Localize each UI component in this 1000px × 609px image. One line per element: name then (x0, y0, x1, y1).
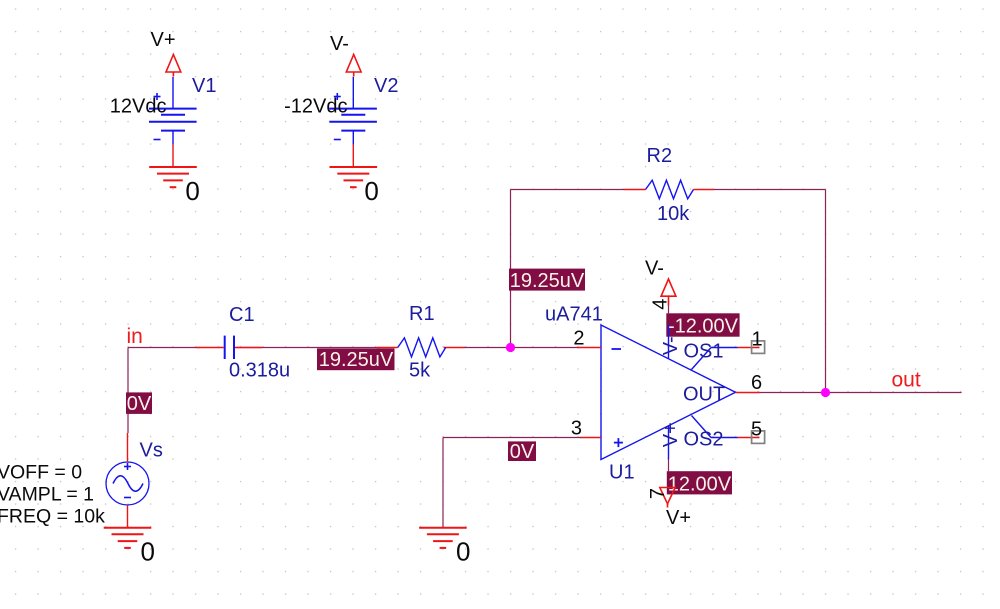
OS2 terminal square pin 5 (752, 431, 765, 444)
svg-text:5: 5 (751, 419, 762, 441)
svg-text:V-: V- (660, 336, 682, 355)
OS1 terminal square pin 1 (752, 341, 765, 354)
OS2 pin line (692, 416, 760, 438)
svg-text:V+: V+ (660, 422, 682, 447)
ground 0 under V1 (149, 144, 197, 187)
wire top horizontal left (511, 189, 626, 191)
bias label 19.25uV (left) (317, 348, 395, 371)
power symbol V+ below op-amp (points down) (660, 488, 675, 508)
svg-text:V-: V- (645, 258, 664, 280)
bias label -12.00V (666, 313, 739, 337)
svg-text:19.25uV: 19.25uV (319, 349, 394, 371)
Vs sine source (106, 462, 149, 505)
wire vertical left feedback (510, 190, 512, 348)
svg-text:0.318u: 0.318u (229, 360, 290, 382)
svg-text:12.00V: 12.00V (668, 474, 732, 496)
svg-text:Vs: Vs (140, 440, 163, 462)
wire pin3 horizontal (443, 437, 581, 439)
capacitor C1 (196, 336, 262, 359)
svg-text:6: 6 (751, 372, 762, 394)
svg-text:-12Vdc: -12Vdc (284, 96, 347, 118)
svg-text:V-: V- (330, 33, 349, 55)
svg-text:OUT: OUT (683, 384, 725, 406)
wire stub pin7 (668, 459, 670, 471)
resistor R2 (624, 180, 713, 199)
svg-text:0: 0 (456, 537, 470, 567)
svg-text:OS1: OS1 (684, 341, 724, 363)
svg-text:V1: V1 (192, 75, 216, 97)
svg-text:0: 0 (364, 176, 378, 206)
svg-text:V2: V2 (374, 75, 398, 97)
ground 0 under Vs (104, 528, 152, 548)
wire top horizontal right (713, 189, 826, 191)
svg-text:C1: C1 (229, 304, 255, 326)
bias label 19.25uV (feedback) (509, 269, 585, 292)
svg-text:U1: U1 (609, 462, 635, 484)
wire junction to pin2 (511, 347, 579, 349)
bias label 0V at input (126, 392, 152, 415)
Vs pins (red) (127, 433, 129, 528)
pin 7 line (V+) (668, 426, 670, 460)
svg-text:0: 0 (185, 176, 199, 206)
svg-text:19.25uV: 19.25uV (510, 270, 585, 292)
svg-text:out: out (892, 369, 921, 392)
svg-text:7: 7 (647, 488, 669, 499)
svg-text:R2: R2 (647, 145, 673, 167)
node junction A (506, 343, 515, 352)
svg-text:OS2: OS2 (684, 429, 724, 451)
svg-text:V+: V+ (666, 507, 691, 529)
ground 0 at pin3 (419, 528, 467, 548)
svg-text:4: 4 (649, 299, 671, 310)
node junction B (821, 388, 830, 397)
svg-text:12Vdc: 12Vdc (110, 96, 167, 118)
svg-text:0V: 0V (510, 441, 535, 463)
svg-text:in: in (127, 325, 143, 348)
bias label 0V at pin3 (508, 441, 536, 463)
op-amp triangle (601, 325, 736, 460)
wire out horizontal (760, 392, 962, 394)
svg-text:1: 1 (752, 329, 763, 351)
minus sign inside (612, 348, 622, 350)
svg-text:-12.00V: -12.00V (668, 316, 739, 338)
power symbol V- (red triangle) (346, 55, 361, 77)
wire stub pin4 (668, 306, 670, 314)
wire in vertical to Vs (127, 348, 129, 434)
svg-text:VAMPL = 1: VAMPL = 1 (0, 484, 94, 506)
pin 6 output (736, 392, 761, 394)
V2 battery symbol (329, 77, 377, 144)
svg-text:0V: 0V (127, 393, 152, 415)
plus sign inside (614, 438, 623, 447)
power symbol V+ (red triangle) (166, 55, 181, 77)
svg-text:2: 2 (573, 328, 584, 350)
power symbol V- above op-amp (661, 279, 676, 306)
svg-text:R1: R1 (409, 303, 435, 325)
svg-text:VOFF = 0: VOFF = 0 (0, 462, 82, 484)
resistor R1 (377, 338, 465, 357)
svg-text:5k: 5k (409, 360, 431, 382)
pin 4 line (V-) (668, 325, 670, 359)
wire C1 right to R1 left (236, 347, 380, 349)
pin 3 (non-inverting) (580, 437, 601, 439)
OS1 pin line (692, 348, 760, 370)
svg-text:V+: V+ (151, 29, 176, 51)
svg-text:0: 0 (141, 537, 155, 567)
svg-text:FREQ = 10k: FREQ = 10k (0, 506, 105, 528)
svg-text:3: 3 (571, 418, 582, 440)
svg-text:10k: 10k (657, 203, 690, 225)
wire R1 to junction (464, 347, 511, 349)
pin 2 (inverting) (577, 347, 601, 349)
wire pin3 vertical (442, 438, 444, 528)
bias label 12.00V (667, 471, 732, 495)
V1 battery symbol (149, 77, 197, 144)
ground 0 under V2 (330, 144, 378, 187)
wire vertical right feedback (825, 190, 827, 393)
svg-text:uA741: uA741 (545, 304, 603, 326)
wire in horizontal (128, 347, 200, 349)
